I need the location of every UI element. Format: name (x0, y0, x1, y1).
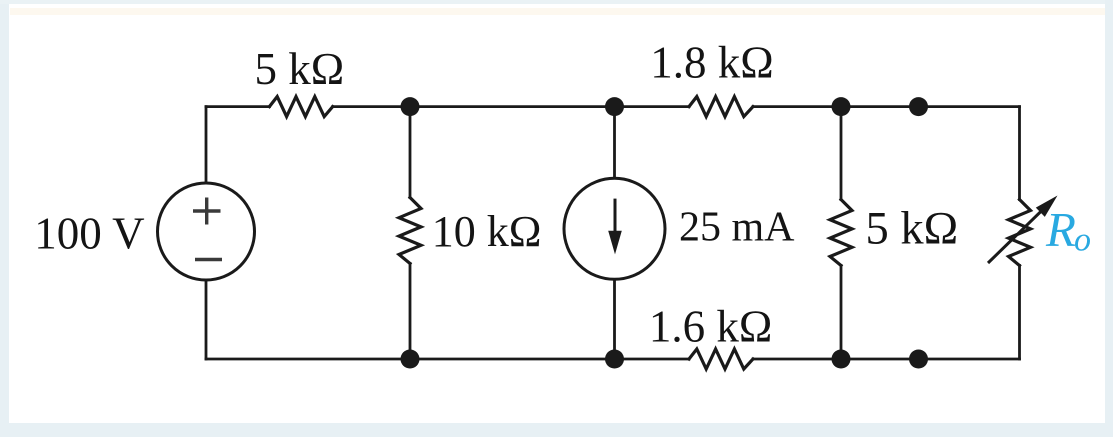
variable resistor Ro arrow (988, 196, 1058, 264)
svg-text:R: R (1045, 202, 1076, 257)
junction dot node H (bottom right) (909, 350, 928, 369)
resistor R5 1.6kohm (bottom, horizontal zigzag) (689, 349, 753, 369)
current source I1 circle (564, 178, 665, 279)
wire top-left segment (206, 105, 269, 108)
current source I1 arrow (608, 199, 622, 255)
wire 5k branch lower (840, 266, 843, 360)
junction dot node C (top of 5k) (832, 97, 851, 116)
svg-text:25 mA: 25 mA (679, 204, 795, 250)
junction dot node A (top of 10k) (401, 97, 420, 116)
svg-text:1.8 kΩ: 1.8 kΩ (650, 38, 773, 88)
label Ro (1045, 202, 1091, 259)
voltage source plus sign (193, 198, 221, 225)
wire current-source branch upper (613, 107, 616, 178)
svg-text:5 kΩ: 5 kΩ (255, 44, 345, 94)
svg-text:o: o (1074, 222, 1091, 259)
resistor R2 10kohm (vertical zigzag) (399, 198, 421, 264)
resistor R3 5kohm (vertical zigzag) (830, 200, 852, 266)
page margin tint top (0, 0, 1113, 4)
svg-text:5 kΩ: 5 kΩ (866, 203, 959, 254)
resistor R4 1.8kohm (top right, horizontal zigzag) (689, 97, 753, 117)
junction dot node B (top of current source) (605, 97, 624, 116)
junction dot node G (bottom of 5k) (832, 350, 851, 369)
wire Ro branch lower (1018, 266, 1021, 360)
wire Ro branch upper (1018, 107, 1021, 200)
wire bottom right segment (753, 358, 1020, 361)
svg-text:100 V: 100 V (34, 209, 144, 259)
wire node1 branch upper (to 10k) (409, 107, 412, 198)
wire top right segment (753, 105, 1020, 108)
wire top middle segment (333, 105, 689, 108)
svg-text:1.6 kΩ: 1.6 kΩ (649, 302, 772, 352)
wire node1 branch lower (409, 264, 412, 360)
voltage source V1 circle (158, 183, 255, 280)
variable resistor Ro (vertical zigzag) (1009, 200, 1031, 266)
junction dot node F (bottom of current source) (605, 350, 624, 369)
page margin tint left (0, 0, 9, 437)
junction dot node D (top right) (909, 97, 928, 116)
svg-text:10 kΩ: 10 kΩ (432, 207, 542, 256)
wire 5k branch upper (840, 107, 843, 200)
resistor R1 5kohm (top left, horizontal zigzag) (269, 97, 332, 117)
voltage source minus sign (195, 258, 222, 261)
faint warm band below top edge (10, 8, 1113, 15)
page margin tint bottom (0, 423, 1113, 437)
wire bottom left segment (206, 358, 689, 361)
junction dot node E (bottom of 10k) (401, 350, 420, 369)
wire left branch lower (205, 280, 208, 359)
page margin tint right (1105, 0, 1113, 437)
wire current-source branch lower (613, 280, 616, 359)
wire left branch upper (205, 107, 208, 183)
